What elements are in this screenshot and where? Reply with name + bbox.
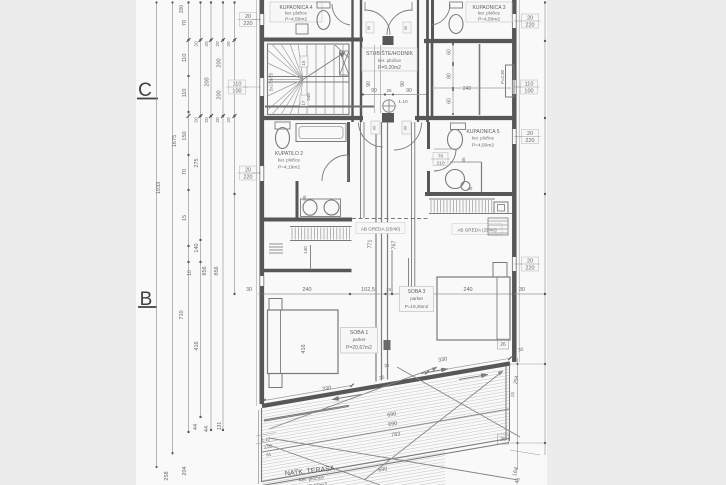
svg-text:44: 44 xyxy=(204,426,210,432)
svg-text:P=20,67m2: P=20,67m2 xyxy=(346,345,372,351)
svg-text:258: 258 xyxy=(164,471,170,480)
svg-text:856: 856 xyxy=(202,266,208,275)
svg-text:200: 200 xyxy=(217,58,223,67)
svg-text:STUBIŠTE/HODNIK: STUBIŠTE/HODNIK xyxy=(366,50,414,57)
svg-text:P=4,50m2: P=4,50m2 xyxy=(285,17,307,23)
svg-text:90: 90 xyxy=(406,88,412,94)
svg-text:ker. pločice: ker. pločice xyxy=(478,11,501,16)
svg-text:131: 131 xyxy=(217,422,223,431)
svg-text:70: 70 xyxy=(438,154,444,160)
svg-text:20: 20 xyxy=(194,41,200,47)
svg-text:ker. pločice: ker. pločice xyxy=(378,58,401,63)
svg-text:P=4,50m2: P=4,50m2 xyxy=(472,143,494,149)
svg-text:110: 110 xyxy=(182,54,188,63)
svg-text:20: 20 xyxy=(527,131,533,137)
svg-text:30: 30 xyxy=(246,287,252,293)
svg-text:110: 110 xyxy=(182,89,188,98)
svg-text:70: 70 xyxy=(182,20,188,26)
svg-text:26: 26 xyxy=(500,342,506,348)
svg-text:20: 20 xyxy=(194,117,200,123)
svg-text:ker. pločice: ker. pločice xyxy=(472,136,495,141)
svg-text:parket: parket xyxy=(353,337,366,342)
svg-text:416: 416 xyxy=(301,344,307,353)
svg-text:15: 15 xyxy=(386,287,392,292)
svg-text:20: 20 xyxy=(226,41,232,47)
svg-text:1675: 1675 xyxy=(172,135,178,147)
svg-text:275: 275 xyxy=(194,158,200,167)
svg-text:AB GREDA (25/40): AB GREDA (25/40) xyxy=(361,227,401,232)
svg-text:204: 204 xyxy=(182,466,188,475)
svg-text:SOBA 1: SOBA 1 xyxy=(350,330,369,336)
svg-text:AB GREDA (25/40): AB GREDA (25/40) xyxy=(457,228,497,233)
svg-text:5x17,9/25: 5x17,9/25 xyxy=(269,72,274,91)
svg-text:25: 25 xyxy=(386,88,392,93)
svg-text:20: 20 xyxy=(226,117,232,123)
svg-text:70: 70 xyxy=(182,169,188,175)
svg-text:416: 416 xyxy=(194,341,200,350)
svg-text:856: 856 xyxy=(214,266,220,275)
svg-text:90: 90 xyxy=(400,81,406,87)
svg-text:40: 40 xyxy=(468,186,473,191)
svg-text:200: 200 xyxy=(205,77,211,86)
svg-text:100: 100 xyxy=(232,89,241,95)
svg-text:30: 30 xyxy=(519,287,525,293)
svg-text:150: 150 xyxy=(182,131,188,140)
svg-text:240: 240 xyxy=(463,287,472,293)
svg-text:90: 90 xyxy=(404,26,408,30)
svg-text:710: 710 xyxy=(179,310,185,319)
svg-text:240: 240 xyxy=(302,287,311,293)
svg-text:20: 20 xyxy=(215,117,221,123)
svg-text:240: 240 xyxy=(306,93,311,101)
svg-text:90: 90 xyxy=(366,81,372,87)
svg-text:ker. pločice: ker. pločice xyxy=(278,158,301,163)
svg-text:P=9,20m2: P=9,20m2 xyxy=(378,65,401,71)
svg-text:P=2,90: P=2,90 xyxy=(500,69,505,84)
svg-text:44: 44 xyxy=(193,424,199,430)
svg-text:60: 60 xyxy=(447,98,453,104)
svg-text:parket: parket xyxy=(410,296,423,301)
svg-text:90: 90 xyxy=(372,125,377,130)
svg-text:90: 90 xyxy=(403,125,408,130)
svg-text:1933: 1933 xyxy=(156,182,162,194)
svg-text:210: 210 xyxy=(436,161,444,167)
svg-text:140: 140 xyxy=(303,246,308,254)
svg-text:771: 771 xyxy=(368,240,374,249)
svg-text:10: 10 xyxy=(187,270,193,276)
svg-text:P=19,25m2: P=19,25m2 xyxy=(405,304,429,309)
svg-text:20: 20 xyxy=(527,16,533,22)
svg-text:200: 200 xyxy=(179,5,185,14)
svg-text:220: 220 xyxy=(525,266,534,272)
svg-text:100: 100 xyxy=(524,89,533,95)
svg-text:SOBA 3: SOBA 3 xyxy=(408,289,426,295)
svg-text:767: 767 xyxy=(392,241,398,250)
svg-text:KUPAONICA 5: KUPAONICA 5 xyxy=(467,129,500,135)
svg-text:20: 20 xyxy=(245,14,251,20)
svg-text:220: 220 xyxy=(243,175,252,181)
svg-text:90: 90 xyxy=(371,88,377,94)
svg-text:110: 110 xyxy=(525,82,534,88)
svg-text:20: 20 xyxy=(215,41,221,47)
svg-text:60: 60 xyxy=(447,49,453,55)
svg-text:15: 15 xyxy=(182,215,188,221)
svg-text:240: 240 xyxy=(463,86,472,92)
svg-text:110: 110 xyxy=(233,82,242,88)
svg-text:KUPATILO 2: KUPATILO 2 xyxy=(275,151,303,157)
svg-text:220: 220 xyxy=(243,21,252,27)
svg-text:20: 20 xyxy=(204,41,210,47)
svg-text:220: 220 xyxy=(525,23,534,29)
svg-text:80: 80 xyxy=(447,73,453,79)
svg-text:102,5: 102,5 xyxy=(361,287,375,293)
svg-text:ker. pločice: ker. pločice xyxy=(285,11,308,16)
svg-text:90: 90 xyxy=(367,26,371,30)
svg-text:16: 16 xyxy=(301,60,306,65)
svg-text:140: 140 xyxy=(194,243,200,252)
svg-text:20: 20 xyxy=(204,117,210,123)
svg-text:200: 200 xyxy=(217,90,223,99)
svg-text:45: 45 xyxy=(461,157,466,163)
svg-text:20: 20 xyxy=(245,168,251,174)
svg-text:P=4,19m2: P=4,19m2 xyxy=(278,165,300,171)
svg-text:95: 95 xyxy=(302,195,307,201)
svg-text:20: 20 xyxy=(527,259,533,265)
svg-text:220: 220 xyxy=(525,138,534,144)
svg-text:1.10: 1.10 xyxy=(398,99,408,105)
svg-text:P=4,50m2: P=4,50m2 xyxy=(478,17,500,23)
